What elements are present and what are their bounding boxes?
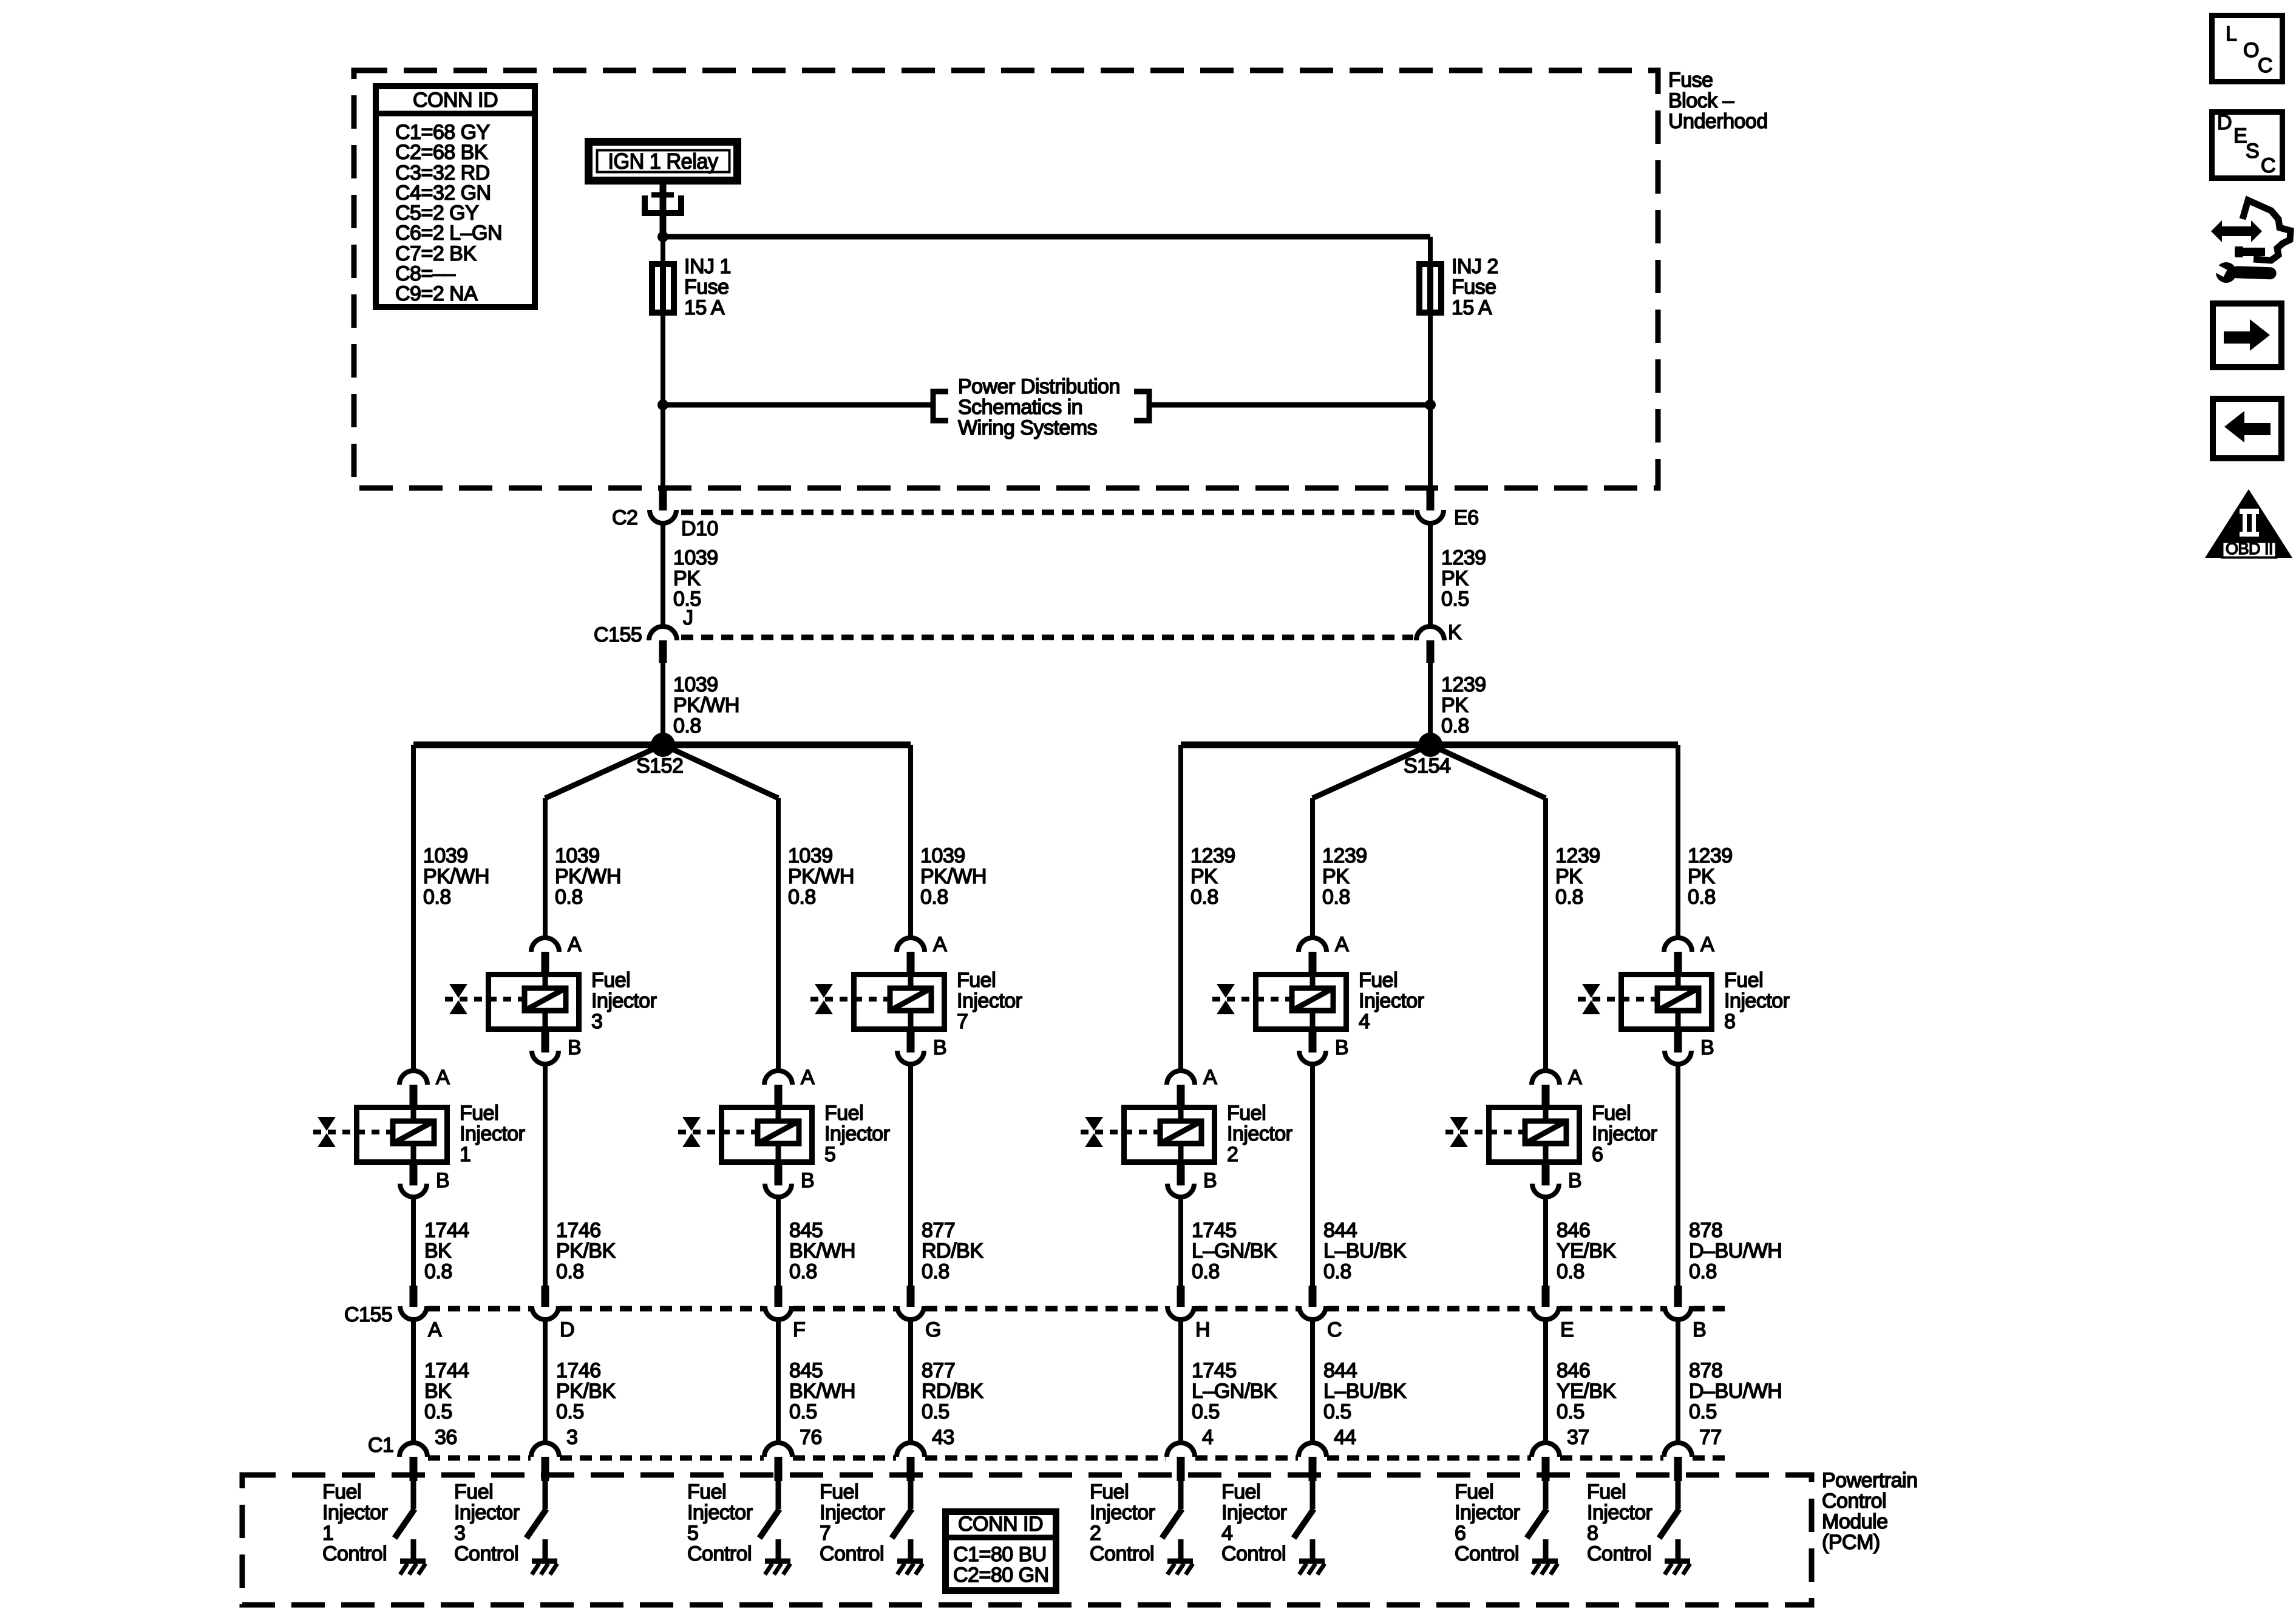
connector C155 pin D (cup)	[532, 1306, 559, 1320]
svg-text:1239: 1239	[1441, 546, 1486, 569]
label: pin G	[925, 1318, 941, 1341]
label: 846 YE/BK 0.8	[1557, 1219, 1616, 1283]
svg-text:0.5: 0.5	[789, 1400, 817, 1423]
label: 877 RD/BK 0.8	[922, 1219, 983, 1283]
connector pin stub C1-43	[907, 1457, 915, 1481]
connector pin stub C155-F	[775, 1286, 783, 1307]
label: INJ 1 Fuse 15 A	[684, 255, 731, 319]
svg-text:Control: Control	[1587, 1542, 1651, 1565]
svg-text:PK/BK: PK/BK	[556, 1239, 616, 1263]
svg-text:Wiring Systems: Wiring Systems	[958, 416, 1097, 439]
svg-text:4: 4	[1359, 1010, 1370, 1033]
svg-text:845: 845	[789, 1219, 823, 1242]
CONN ID table (PCM)	[942, 1512, 1059, 1591]
svg-text:0.8: 0.8	[1688, 886, 1716, 909]
svg-text:5: 5	[824, 1143, 835, 1166]
dashed connector line C2-E6	[681, 510, 1414, 515]
svg-text:1239: 1239	[1441, 673, 1486, 696]
connector C1 pin 77 (dome)	[1664, 1443, 1692, 1457]
svg-text:0.8: 0.8	[1322, 886, 1350, 909]
label: Fuel Injector 7	[957, 969, 1022, 1033]
fuel injector 8 nozzle valve symbol	[1582, 984, 1600, 1014]
fuel injector 6 nozzle dashed link	[1445, 1130, 1525, 1134]
ground symbol (injector 3 control)	[532, 1539, 557, 1575]
svg-text:1039: 1039	[788, 844, 833, 867]
label: 1745 L–GN/BK 0.5	[1192, 1359, 1277, 1423]
svg-text:INJ 1: INJ 1	[684, 255, 731, 278]
svg-text:Fuel: Fuel	[1592, 1102, 1631, 1125]
svg-text:5: 5	[687, 1522, 698, 1545]
svg-text:CONN ID: CONN ID	[958, 1513, 1043, 1536]
label: 1039 PK/WH 0.8 (branch 7)	[920, 844, 987, 909]
svg-text:Injector: Injector	[1090, 1501, 1155, 1524]
connector pin B of fuel injector 3	[532, 1032, 581, 1064]
connector C1 pin 3 (dome)	[531, 1443, 559, 1457]
svg-text:D: D	[560, 1318, 574, 1341]
label: Fuel Injector 2 Control	[1090, 1480, 1155, 1565]
label: 845 BK/WH 0.8	[789, 1219, 855, 1283]
fuel injector 5 box	[722, 1105, 812, 1165]
wire 1039 PK/WH to splice	[661, 663, 665, 742]
svg-text:Injector: Injector	[824, 1122, 890, 1145]
wire branch to fuel injector 3	[543, 798, 548, 938]
connector pin stub C1-4	[1177, 1457, 1185, 1481]
svg-text:Control: Control	[1090, 1542, 1154, 1565]
connector pin B of fuel injector 4	[1299, 1032, 1348, 1064]
svg-text:Control: Control	[1822, 1490, 1886, 1513]
svg-text:A: A	[436, 1066, 450, 1089]
svg-text:BK: BK	[424, 1380, 452, 1403]
label: pin C	[1327, 1318, 1342, 1341]
wire diagonal S154 to injector 4 branch	[1313, 745, 1430, 798]
fuse F1: INJ 1 Fuse 15 A	[652, 237, 674, 486]
svg-text:E: E	[2233, 124, 2247, 147]
connector pin stub C155-G	[907, 1286, 915, 1307]
svg-text:1744: 1744	[424, 1219, 469, 1242]
svg-text:0.8: 0.8	[556, 1260, 584, 1283]
junction node power distribution right	[1425, 399, 1436, 410]
connector pin stub C155-C	[1309, 1286, 1317, 1307]
connector C1 pin 4 (dome)	[1167, 1443, 1195, 1457]
wire from injector 5 pin B down	[776, 1197, 781, 1286]
svg-text:PK: PK	[1190, 865, 1218, 888]
svg-text:Schematics in: Schematics in	[958, 396, 1082, 419]
svg-text:B: B	[1335, 1036, 1348, 1059]
wire branch to fuel injector 2	[1178, 745, 1183, 1071]
svg-text:B: B	[801, 1169, 814, 1192]
fuel injector 1 nozzle valve symbol	[318, 1117, 336, 1147]
label: Fuel Injector 3 Control	[454, 1480, 520, 1565]
svg-text:PK: PK	[1688, 865, 1715, 888]
relay output terminal symbol	[645, 185, 681, 237]
label: INJ 2 Fuse 15 A	[1452, 255, 1498, 319]
label: Fuel Injector 1	[460, 1102, 525, 1166]
svg-text:L–GN/BK: L–GN/BK	[1192, 1380, 1277, 1403]
svg-text:1039: 1039	[920, 844, 965, 867]
connector C1 pin 37 (dome)	[1532, 1443, 1560, 1457]
svg-text:37: 37	[1567, 1426, 1589, 1449]
svg-text:Injector: Injector	[1455, 1501, 1520, 1524]
wire diagonal S154 to injector 6 branch	[1430, 745, 1546, 798]
svg-text:Fuel: Fuel	[591, 969, 630, 992]
svg-text:L–BU/BK: L–BU/BK	[1323, 1380, 1407, 1403]
svg-text:Injector: Injector	[1221, 1501, 1287, 1524]
svg-text:1744: 1744	[424, 1359, 469, 1382]
connector pin stub C2	[659, 486, 667, 510]
fuel injector 3 nozzle valve symbol	[449, 984, 467, 1014]
wire 877 to PCM	[908, 1320, 913, 1443]
svg-text:A: A	[1203, 1066, 1217, 1089]
svg-text:1239: 1239	[1322, 844, 1367, 867]
svg-text:B: B	[436, 1169, 449, 1192]
svg-text:Fuel: Fuel	[820, 1480, 858, 1503]
svg-text:Fuse: Fuse	[684, 276, 729, 299]
svg-text:Fuel: Fuel	[1359, 969, 1398, 992]
fuel injector 8 coil	[1657, 988, 1699, 1011]
svg-text:845: 845	[789, 1359, 823, 1382]
svg-text:Injector: Injector	[322, 1501, 388, 1524]
label: C1	[368, 1434, 393, 1457]
svg-text:0.5: 0.5	[1557, 1400, 1584, 1423]
label: 1039 PK/WH 0.8	[673, 673, 739, 737]
PCM driver switch for injector 4	[1294, 1481, 1314, 1538]
label: Fuel Injector 7 Control	[820, 1480, 885, 1565]
svg-text:1745: 1745	[1192, 1219, 1237, 1242]
connector pin stub C155-E	[1542, 1286, 1550, 1307]
svg-text:Injector: Injector	[820, 1501, 885, 1524]
icon: forward arrow box	[2213, 303, 2281, 367]
svg-text:(PCM): (PCM)	[1822, 1531, 1880, 1554]
CONN ID table (fuse block)	[373, 86, 538, 307]
label: 845 BK/WH 0.5	[789, 1359, 855, 1423]
svg-text:0.8: 0.8	[424, 1260, 452, 1283]
fuel injector 7 nozzle dashed link	[810, 997, 890, 1002]
bracket left	[933, 392, 948, 421]
svg-text:CONN ID: CONN ID	[413, 89, 498, 112]
fuel injector 4 nozzle valve symbol	[1217, 984, 1235, 1014]
fuel injector 3 nozzle dashed link	[445, 997, 525, 1002]
svg-text:8: 8	[1724, 1010, 1735, 1033]
svg-text:Block –: Block –	[1668, 89, 1734, 112]
label: 1039 PK/WH 0.8 (branch 3)	[555, 844, 621, 909]
svg-text:PK: PK	[673, 567, 701, 590]
label: 844 L–BU/BK 0.8	[1323, 1219, 1407, 1283]
svg-text:G: G	[925, 1318, 941, 1341]
ground symbol (injector 6 control)	[1532, 1539, 1558, 1575]
svg-text:0.8: 0.8	[673, 714, 701, 737]
connector C1 pin 43 (dome)	[897, 1443, 925, 1457]
svg-text:43: 43	[932, 1426, 954, 1449]
connector pin stub J	[659, 640, 667, 663]
connector pin stub C155-D	[542, 1286, 549, 1307]
svg-text:0.5: 0.5	[1192, 1400, 1220, 1423]
svg-text:Fuel: Fuel	[1455, 1480, 1493, 1503]
svg-text:Injector: Injector	[460, 1122, 525, 1145]
svg-text:76: 76	[800, 1426, 822, 1449]
label: 1039 PK/WH 0.8 (branch 5)	[788, 844, 854, 909]
label: pin number 3	[566, 1426, 577, 1449]
svg-text:0.8: 0.8	[1557, 1260, 1584, 1283]
dashed connector line C155 row	[428, 1306, 1731, 1312]
PCM driver switch for injector 5	[759, 1481, 779, 1538]
svg-text:6: 6	[1592, 1143, 1603, 1166]
connector pin A of fuel injector 1	[399, 1066, 450, 1107]
fuel injector 7 coil	[890, 988, 931, 1011]
svg-text:A: A	[568, 933, 582, 956]
svg-text:Fuel: Fuel	[1227, 1102, 1266, 1125]
label: pin F	[793, 1318, 805, 1341]
PCM driver switch for injector 6	[1527, 1481, 1547, 1538]
connector pin A of fuel injector 8	[1664, 933, 1714, 974]
fuel injector 8 nozzle dashed link	[1578, 997, 1657, 1002]
label: 844 L–BU/BK 0.5	[1323, 1359, 1407, 1423]
svg-text:L–GN/BK: L–GN/BK	[1192, 1239, 1277, 1263]
svg-text:878: 878	[1689, 1359, 1722, 1382]
label: Fuel Injector 4	[1359, 969, 1424, 1033]
label: pin A	[428, 1318, 442, 1341]
connector pin A of fuel injector 5	[764, 1066, 815, 1107]
connector C155 pin B (cup)	[1665, 1306, 1691, 1320]
label: 1039 PK 0.5	[673, 546, 718, 611]
svg-text:B: B	[568, 1036, 581, 1059]
fuel injector 2 box	[1124, 1105, 1215, 1165]
svg-text:YE/BK: YE/BK	[1557, 1380, 1616, 1403]
fuel injector 1 coil	[393, 1121, 434, 1144]
splice S152 node	[651, 733, 675, 757]
svg-text:Injector: Injector	[591, 989, 657, 1012]
svg-text:S152: S152	[636, 754, 683, 778]
wire: INJ 2 fuse drop	[1428, 237, 1433, 261]
svg-text:F: F	[793, 1318, 805, 1341]
label: pin number 43	[932, 1426, 954, 1449]
svg-text:PK: PK	[1441, 567, 1469, 590]
svg-text:Injector: Injector	[957, 989, 1022, 1012]
svg-text:1039: 1039	[673, 673, 718, 696]
svg-text:C6=2 L–GN: C6=2 L–GN	[395, 222, 502, 245]
label: 846 YE/BK 0.5	[1557, 1359, 1616, 1423]
svg-text:1039: 1039	[555, 844, 600, 867]
label: C2	[612, 506, 637, 529]
svg-text:36: 36	[435, 1426, 457, 1449]
fuel injector 7 nozzle valve symbol	[815, 984, 833, 1014]
connector pin stub C1-36	[410, 1457, 418, 1481]
label: Fuel Injector 5	[824, 1102, 890, 1166]
wire 1744 to PCM	[411, 1320, 416, 1443]
wire from injector 2 pin B down	[1178, 1197, 1183, 1286]
svg-text:Injector: Injector	[454, 1501, 520, 1524]
svg-text:Fuel: Fuel	[957, 969, 996, 992]
PCM driver switch for injector 7	[892, 1481, 912, 1538]
label: K	[1448, 621, 1462, 644]
PCM driver switch for injector 8	[1659, 1481, 1679, 1538]
svg-text:Fuel: Fuel	[454, 1480, 493, 1503]
svg-text:8: 8	[1587, 1522, 1598, 1545]
svg-text:0.5: 0.5	[1441, 588, 1469, 611]
svg-text:0.8: 0.8	[1192, 1260, 1220, 1283]
svg-text:PK/WH: PK/WH	[920, 865, 987, 888]
svg-text:1746: 1746	[556, 1359, 601, 1382]
svg-text:YE/BK: YE/BK	[1557, 1239, 1616, 1263]
svg-text:846: 846	[1557, 1359, 1590, 1382]
svg-text:INJ 2: INJ 2	[1452, 255, 1498, 278]
wire diagonal S152 to injector 5 branch	[663, 745, 778, 798]
svg-text:3: 3	[454, 1522, 465, 1545]
fuel injector 2 coil	[1160, 1121, 1201, 1144]
svg-text:0.5: 0.5	[1689, 1400, 1717, 1423]
fuel injector 5 coil	[758, 1121, 799, 1144]
fuel injector 5 nozzle valve symbol	[682, 1117, 701, 1147]
svg-text:6: 6	[1455, 1522, 1466, 1545]
connector pin A of fuel injector 3	[531, 933, 582, 974]
svg-text:C: C	[2261, 154, 2275, 177]
label: 1746 PK/BK 0.8	[556, 1219, 616, 1283]
connector pin stub C1-77	[1674, 1457, 1682, 1481]
svg-text:C155: C155	[344, 1303, 392, 1326]
connector C1 pin 44 (dome)	[1299, 1443, 1326, 1457]
label: C155	[594, 623, 642, 646]
svg-text:D: D	[2217, 111, 2232, 134]
wire from injector 4 pin B down	[1310, 1064, 1315, 1286]
connector C155 K (dome)	[1416, 626, 1444, 640]
svg-text:Injector: Injector	[1724, 989, 1790, 1012]
svg-text:H: H	[1195, 1318, 1210, 1341]
label: J	[683, 606, 693, 629]
svg-text:A: A	[933, 933, 947, 956]
wire: relay feed to INJ 2 fuse	[663, 234, 1430, 240]
svg-text:Fuse: Fuse	[1668, 69, 1713, 92]
label: pin B	[1693, 1318, 1706, 1341]
connector pin B of fuel injector 1	[400, 1165, 449, 1197]
svg-text:7: 7	[820, 1522, 830, 1545]
svg-text:0.8: 0.8	[1323, 1260, 1351, 1283]
connector C155 pin E (cup)	[1532, 1306, 1559, 1320]
svg-text:C1=80 BU: C1=80 BU	[953, 1543, 1047, 1566]
svg-text:0.8: 0.8	[920, 886, 948, 909]
svg-text:PK: PK	[1441, 694, 1469, 717]
svg-text:Underhood: Underhood	[1668, 110, 1768, 133]
label: pin E	[1560, 1318, 1574, 1341]
svg-text:77: 77	[1699, 1426, 1722, 1449]
label: pin number 37	[1567, 1426, 1589, 1449]
icon: adjust (hand with double arrow and wrench)	[2208, 200, 2291, 283]
svg-text:Fuse: Fuse	[1452, 276, 1496, 299]
label: Fuel Injector 6 Control	[1455, 1480, 1520, 1565]
wire branch to fuel injector 7	[908, 745, 913, 938]
connector pin stub C155-B	[1674, 1286, 1682, 1307]
svg-text:1746: 1746	[556, 1219, 601, 1242]
svg-text:0.8: 0.8	[789, 1260, 817, 1283]
wire from injector 6 pin B down	[1543, 1197, 1548, 1286]
svg-text:B: B	[1693, 1318, 1706, 1341]
svg-text:1: 1	[322, 1522, 333, 1545]
svg-text:0.8: 0.8	[1555, 886, 1583, 909]
svg-text:0.8: 0.8	[1441, 714, 1469, 737]
svg-text:C155: C155	[594, 623, 642, 646]
label: 1239 PK 0.8 (branch 6)	[1555, 844, 1600, 909]
svg-text:7: 7	[957, 1010, 968, 1033]
svg-text:44: 44	[1334, 1426, 1356, 1449]
svg-text:BK/WH: BK/WH	[789, 1380, 855, 1403]
svg-text:C9=2 NA: C9=2 NA	[395, 282, 478, 305]
ground symbol (injector 2 control)	[1167, 1539, 1193, 1575]
connector C1 pin 36 (dome)	[399, 1443, 427, 1457]
svg-text:PK/WH: PK/WH	[555, 865, 621, 888]
icon: DESC box	[2212, 111, 2283, 178]
connector pin stub C1-44	[1309, 1457, 1317, 1481]
label: 1239 PK 0.5	[1441, 546, 1486, 611]
splice S154 node	[1418, 733, 1442, 757]
svg-text:OBD II: OBD II	[2226, 540, 2273, 558]
dashed connector line C1 row	[428, 1456, 1731, 1461]
svg-text:Fuel: Fuel	[1090, 1480, 1129, 1503]
wire 1745 to PCM	[1178, 1320, 1183, 1443]
svg-text:Powertrain: Powertrain	[1822, 1469, 1918, 1492]
fuel injector 6 coil	[1525, 1121, 1566, 1144]
svg-text:0.8: 0.8	[922, 1260, 949, 1283]
svg-text:E6: E6	[1454, 506, 1479, 529]
bracket right	[1134, 392, 1149, 421]
svg-text:J: J	[683, 606, 693, 629]
connector pin B of fuel injector 6	[1532, 1165, 1581, 1197]
label: Fuel Injector 1 Control	[322, 1480, 388, 1565]
label: 1744 BK 0.5	[424, 1359, 469, 1423]
svg-text:1039: 1039	[423, 844, 468, 867]
label: 877 RD/BK 0.5	[922, 1359, 983, 1423]
icon: back arrow box	[2213, 399, 2281, 458]
label: E6	[1454, 506, 1479, 529]
svg-text:BK: BK	[424, 1239, 452, 1263]
fuel injector 8 box	[1622, 972, 1712, 1032]
label: Fuel Injector 3	[591, 969, 657, 1033]
label: 1744 BK 0.8	[424, 1219, 469, 1283]
fuel injector 4 box	[1256, 972, 1347, 1032]
label: Powertrain Control Module (PCM)	[1822, 1469, 1918, 1554]
fuel injector 4 nozzle dashed link	[1212, 997, 1292, 1002]
fuel injector 3 box	[489, 972, 579, 1032]
connector pin B of fuel injector 2	[1167, 1165, 1217, 1197]
svg-text:A: A	[1568, 1066, 1582, 1089]
label: D10	[681, 517, 718, 540]
svg-text:Injector: Injector	[1587, 1501, 1652, 1524]
relay K1: IGN 1 Relay box	[589, 142, 738, 181]
wire 845 to PCM	[776, 1320, 781, 1443]
connector pin A of fuel injector 2	[1167, 1066, 1217, 1107]
svg-text:844: 844	[1323, 1219, 1357, 1242]
svg-text:Injector: Injector	[687, 1501, 753, 1524]
svg-text:A: A	[428, 1318, 442, 1341]
label: pin H	[1195, 1318, 1210, 1341]
connector pin A of fuel injector 4	[1299, 933, 1349, 974]
svg-text:PK: PK	[1322, 865, 1350, 888]
svg-text:E: E	[1560, 1318, 1574, 1341]
svg-text:C: C	[2258, 54, 2272, 77]
svg-text:Injector: Injector	[1359, 989, 1424, 1012]
svg-text:BK/WH: BK/WH	[789, 1239, 855, 1263]
svg-text:A: A	[1700, 933, 1714, 956]
label: 1239 PK 0.8 (branch 4)	[1322, 844, 1367, 909]
svg-text:Fuel: Fuel	[687, 1480, 726, 1503]
svg-text:B: B	[1568, 1169, 1581, 1192]
label: Fuel Injector 5 Control	[687, 1480, 753, 1565]
wire 1039 PK left drop	[661, 523, 665, 626]
wire from injector 1 pin B down	[411, 1197, 416, 1286]
wire branch to fuel injector 8	[1676, 745, 1680, 938]
svg-text:IGN 1 Relay: IGN 1 Relay	[608, 149, 718, 174]
PCM driver switch for injector 3	[526, 1481, 546, 1538]
wire diagonal S152 to injector 3 branch	[545, 745, 663, 798]
fuel injector 6 nozzle valve symbol	[1450, 1117, 1468, 1147]
svg-text:S: S	[2246, 140, 2259, 163]
